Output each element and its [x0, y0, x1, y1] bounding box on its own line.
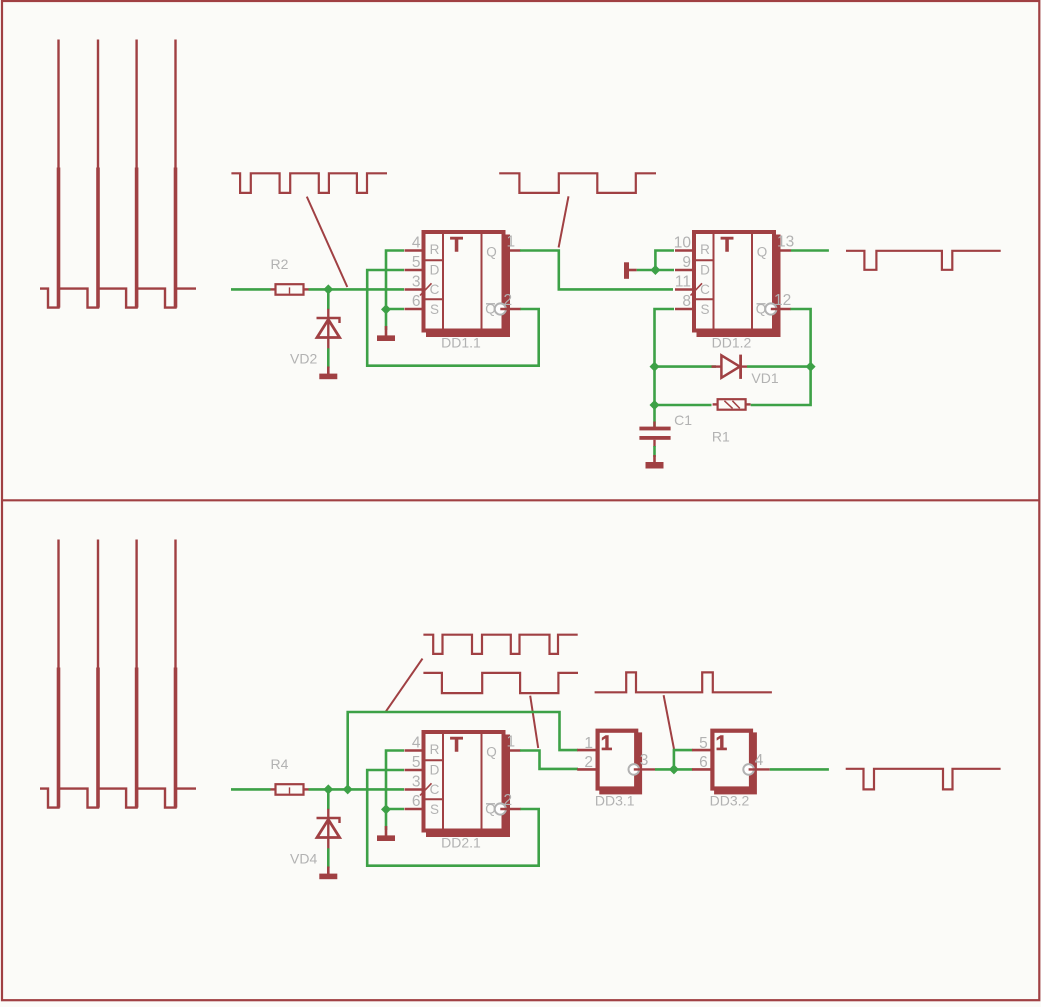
resistor R4 [271, 784, 309, 795]
wire: input net to R2 [231, 288, 271, 291]
panel divider line [2, 499, 1039, 501]
junction node at branch to DD3.1 [343, 784, 353, 794]
zener diode VD4 [317, 809, 340, 849]
pin 4 (DD3.2 output) [749, 752, 770, 769]
svg-text:9: 9 [682, 254, 691, 271]
wire: DD1.1 Q to DD1.2 C [520, 251, 673, 290]
wire waveform: input pulse train (bottom panel input) [40, 540, 196, 808]
pin 5 (DD3.2 input) [692, 735, 712, 752]
svg-text:C1: C1 [674, 412, 692, 428]
label VD1 [751, 370, 778, 386]
svg-text:5: 5 [412, 754, 421, 771]
svg-text:3: 3 [640, 752, 649, 769]
flip-flop DD2.1 body [420, 732, 510, 837]
svg-text:DD1.2: DD1.2 [712, 334, 752, 350]
wire waveform: input pulse train (top panel input) [40, 40, 196, 308]
wire: C1 to ground [653, 446, 656, 457]
pin 5 (DD1.1 D input) [405, 254, 424, 271]
svg-text:8: 8 [682, 293, 691, 310]
svg-text:5: 5 [699, 735, 708, 752]
svg-text:DD3.2: DD3.2 [710, 793, 750, 809]
resistor R1 [713, 399, 751, 410]
wire: R input net of DD2.1 [386, 751, 404, 810]
junction node at R4 / VD4 [323, 784, 333, 794]
svg-text:DD3.1: DD3.1 [595, 793, 635, 809]
label VD2 [290, 351, 317, 367]
pin 2 (DD1.1 Qbar output) [500, 292, 520, 309]
diode VD1 [712, 355, 748, 379]
wire: DD1.2 Q output net [791, 249, 829, 252]
pin 3 (DD2.1 C input) [405, 773, 424, 790]
resistor R2 [271, 284, 309, 295]
svg-text:S: S [700, 302, 709, 317]
pin 2 (DD3.1 input) [577, 754, 597, 771]
wire waveform: output waveform of second divider [846, 769, 1001, 790]
wire: R1 right to DD1.2 Qbar [751, 309, 811, 405]
capacitor C1 [639, 405, 670, 447]
svg-text:S: S [430, 302, 439, 317]
inverter DD3.1 body [598, 731, 643, 795]
svg-text:2: 2 [504, 792, 513, 809]
flip-flop DD1.1 body [420, 232, 510, 337]
svg-text:D: D [430, 263, 440, 278]
junction node at DD3.2 inputs [669, 764, 679, 774]
junction node at DD2.1 S [381, 804, 391, 814]
svg-text:1: 1 [715, 732, 727, 755]
svg-text:3: 3 [412, 273, 421, 290]
svg-text:5: 5 [412, 254, 421, 271]
svg-text:R2: R2 [271, 256, 289, 272]
svg-text:10: 10 [674, 234, 692, 251]
ground below VD4 [319, 867, 337, 880]
svg-text:13: 13 [777, 234, 794, 251]
svg-text:1: 1 [601, 732, 613, 755]
svg-text:1: 1 [507, 234, 516, 251]
junction node at R2 / VD2 [323, 284, 333, 294]
wire: S junction to ground [385, 309, 388, 330]
svg-text:6: 6 [412, 793, 421, 810]
pin 12 (DD1.2 Qbar output) [771, 292, 791, 309]
wire: VD1 cathode to Qbar net [747, 365, 811, 368]
pin 5 (DD2.1 D input) [405, 754, 424, 771]
pin 6 (DD3.2 input) [692, 754, 712, 771]
wire: leader line from clock waveform to C net (bottom) [386, 659, 423, 712]
label VD4 [290, 851, 317, 867]
wire waveform: divided square wave at DD2.1 Q [423, 673, 578, 693]
pin 10 (DD1.2 R input) [674, 234, 694, 251]
pin 8 (DD1.2 S input) [675, 293, 694, 310]
svg-text:C: C [430, 282, 440, 297]
flip-flop DD1.2 body [691, 232, 781, 337]
ground below DD2.1 S [377, 826, 395, 841]
wire waveform: clock at DD2.1 C input [423, 635, 577, 654]
wire waveform: output waveform of first divider [846, 251, 1001, 270]
svg-text:S: S [430, 802, 439, 817]
svg-text:VD1: VD1 [751, 370, 778, 386]
label R1 [712, 428, 730, 444]
svg-text:3: 3 [412, 773, 421, 790]
svg-text:Q: Q [486, 745, 497, 760]
svg-text:C: C [430, 782, 440, 797]
pin 1 (DD3.1 input) [577, 735, 597, 752]
svg-text:Q: Q [757, 245, 768, 260]
pin 4 (DD2.1 R input) [405, 734, 424, 751]
pin 3 (DD3.1 output) [634, 752, 655, 769]
wire: input net to R4 [231, 788, 271, 791]
svg-text:R: R [430, 242, 440, 257]
wire: S junction to ground (bottom) [385, 809, 388, 830]
wire: DD2.1 Qbar feedback to D [367, 770, 539, 866]
label DD1.2 [712, 334, 752, 350]
wire: DD1.1 Qbar feedback to D [367, 270, 539, 366]
wire: terminal to DD1.2 R and D pins [637, 251, 674, 271]
wire waveform: divided-by-2 square wave at DD1.1 Q [499, 173, 656, 193]
svg-text:R1: R1 [712, 428, 730, 444]
svg-text:DD2.1: DD2.1 [441, 834, 481, 850]
svg-text:R4: R4 [271, 756, 289, 772]
junction node at R1 left [650, 400, 660, 410]
svg-text:D: D [700, 263, 710, 278]
wire: junction down to VD4 [327, 789, 330, 809]
wire: leader line from square wave to Q net [559, 196, 569, 247]
label R4 [271, 756, 289, 772]
ground below DD1.1 S [377, 326, 395, 341]
svg-text:Q: Q [486, 245, 497, 260]
svg-text:1: 1 [507, 734, 516, 751]
junction node at VD1 left [650, 362, 660, 372]
wire: DD3.2 output net [770, 768, 829, 771]
svg-text:2: 2 [504, 292, 513, 309]
svg-text:T: T [450, 234, 463, 257]
wire: leader line from square wave to Q net (bottom) [530, 696, 538, 748]
pin 1 (DD1.1 Q output) [504, 234, 521, 251]
label DD1.1 [441, 334, 481, 350]
terminal symbol at DD1.2 R/D [624, 262, 637, 279]
wire waveform: inverted narrow pulses at DD3.1 output [595, 672, 772, 692]
wire: VD1 anode net [655, 365, 717, 368]
svg-text:12: 12 [774, 292, 791, 309]
pin 13 (DD1.2 Q output) [774, 234, 794, 251]
label DD3.2 [710, 793, 750, 809]
svg-text:T: T [721, 234, 734, 257]
wire: DD2.1 Q to DD3.1 input 2 [520, 751, 578, 769]
wire waveform: clock at DD1.1 C input [231, 173, 387, 193]
svg-text:DD1.1: DD1.1 [441, 334, 481, 350]
pin 6 (DD1.1 S input) [405, 293, 424, 310]
svg-text:1: 1 [584, 735, 593, 752]
svg-text:11: 11 [675, 273, 691, 290]
pin 11 (DD1.2 C input) [675, 273, 694, 290]
svg-text:T: T [450, 734, 463, 757]
svg-text:D: D [430, 763, 440, 778]
svg-text:R: R [700, 242, 710, 257]
svg-text:2: 2 [584, 754, 593, 771]
svg-text:6: 6 [412, 293, 421, 310]
inverter DD3.2 body [712, 731, 756, 795]
wire: R2 to DD1.1 C pin [309, 288, 405, 291]
svg-text:R: R [430, 742, 440, 757]
wire: VD2 to ground [327, 348, 330, 368]
junction node at VD1 right [806, 362, 816, 372]
wire: R input net of DD1.1 [386, 251, 404, 310]
svg-text:4: 4 [755, 752, 764, 769]
pin 2 (DD2.1 Qbar output) [500, 792, 520, 809]
svg-text:4: 4 [412, 734, 421, 751]
label R2 [271, 256, 289, 272]
pin 1 (DD2.1 Q output) [504, 734, 521, 751]
wire: R4 to DD2.1 C pin [309, 788, 405, 791]
pin 6 (DD2.1 S input) [405, 793, 424, 810]
svg-text:VD2: VD2 [290, 351, 317, 367]
label DD3.1 [595, 793, 635, 809]
wire: DD1.2 S down the left side [655, 309, 675, 405]
wire: leader line from clock waveform to C net [307, 197, 348, 287]
wire: branch from junction up and over to DD3.1 input 1 [348, 712, 578, 789]
wire: R1 left net [655, 404, 712, 407]
svg-text:C: C [700, 282, 710, 297]
label C1 [674, 412, 692, 428]
zener diode VD2 [317, 309, 340, 349]
svg-text:6: 6 [699, 754, 708, 771]
junction node at terminal [650, 265, 660, 275]
label DD2.1 [441, 834, 481, 850]
ground below VD2 [319, 367, 337, 380]
pin 3 (DD1.1 C input) [405, 273, 424, 290]
junction node at DD1.1 S [381, 304, 391, 314]
svg-text:4: 4 [412, 234, 421, 251]
wire: leader line from pulse waveform to DD3.2 input net [664, 695, 674, 749]
wire: junction down to VD2 [327, 289, 330, 309]
wire: DD3.1 output to DD3.2 inputs [655, 750, 693, 769]
ground below C1 [646, 455, 664, 469]
svg-text:VD4: VD4 [290, 851, 317, 867]
wire: VD4 to ground [327, 848, 330, 868]
pin 9 (DD1.2 D input) [675, 254, 694, 271]
pin 4 (DD1.1 R input) [405, 234, 424, 251]
